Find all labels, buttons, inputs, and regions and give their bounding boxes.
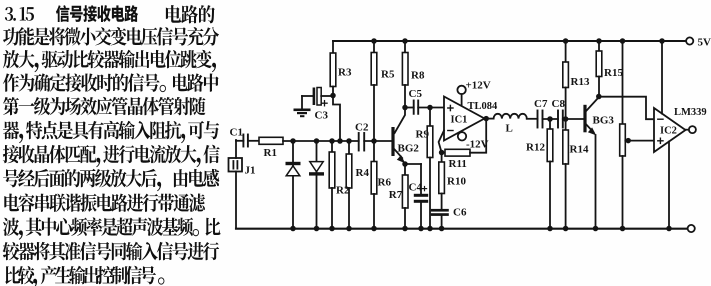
paragraph line 9 [4, 194, 205, 212]
resistor R5 [371, 41, 377, 141]
svg-text:+12V: +12V [466, 80, 491, 92]
resistor R11 (feedback) [442, 119, 487, 157]
svg-text:R11: R11 [449, 158, 467, 170]
capacitor C1 [243, 135, 248, 147]
svg-text:TL084: TL084 [468, 101, 499, 112]
svg-text:C7: C7 [534, 98, 548, 110]
capacitor C6 [431, 209, 449, 229]
svg-text:R10: R10 [447, 176, 466, 188]
svg-text:IC1: IC1 [451, 114, 468, 125]
svg-text:R3: R3 [338, 67, 352, 79]
paragraph line 11 [3, 242, 220, 261]
svg-text:BG2: BG2 [398, 143, 420, 155]
wire J1 to C1 [236, 140, 243, 142]
capacitor C3 [302, 88, 333, 109]
node output ground terminal [688, 225, 695, 232]
svg-text:C8: C8 [552, 98, 566, 110]
svg-text:R4: R4 [356, 167, 370, 179]
capacitor C7 [538, 111, 543, 128]
svg-text:R9: R9 [416, 129, 430, 141]
svg-text:C5: C5 [409, 88, 423, 100]
paragraph line 6 [3, 121, 219, 143]
resistor R14 [563, 119, 569, 229]
ground [294, 109, 311, 118]
wire C1 to R1 [248, 140, 259, 142]
wire IC2 V+ from 5V rail [661, 41, 663, 114]
svg-text:R8: R8 [411, 70, 425, 82]
wire divider tap to IC2 non-inverting input [625, 140, 654, 142]
diode D2 [309, 141, 324, 229]
resistor R1 [259, 137, 283, 144]
resistor R4 [346, 141, 352, 229]
svg-text:R2: R2 [336, 185, 350, 197]
svg-text:BG3: BG3 [593, 115, 615, 127]
wire IC1 output [485, 118, 494, 120]
resistor R10 [439, 153, 445, 209]
svg-text:IC2: IC2 [660, 126, 677, 137]
capacitor C4 [414, 164, 428, 229]
wire IC2 ground pin [668, 142, 670, 229]
wire signal bus (R1 to C2) [283, 140, 359, 142]
paragraph line 7 [3, 145, 220, 167]
wire C8 to BG3 base [563, 118, 584, 120]
resistor R16 (reference divider) [620, 41, 626, 229]
wire R3/C3 node to signal bus [333, 96, 340, 142]
svg-text:R13: R13 [571, 76, 590, 88]
svg-text:C1: C1 [230, 127, 243, 139]
inductor L [494, 114, 527, 119]
paragraph line 5 [3, 97, 206, 115]
svg-text:5V: 5V [698, 37, 711, 49]
heading number 3.15 [5, 7, 34, 21]
node 5V terminal [686, 37, 693, 44]
paragraph line 8 [3, 169, 219, 191]
wire IC1 inverting input [439, 131, 444, 153]
capacitor C5 [405, 101, 444, 114]
svg-text:R5: R5 [381, 69, 395, 81]
capacitor C8 [558, 111, 563, 128]
paragraph line 2 [3, 27, 219, 46]
resistor R9 [427, 108, 433, 229]
resistor R12 [547, 119, 553, 229]
svg-text:R1: R1 [264, 147, 277, 159]
paragraph line 4 [3, 73, 219, 92]
svg-text:L: L [506, 123, 513, 135]
transistor BG3 [583, 97, 598, 228]
resistor R15 [596, 41, 602, 97]
svg-text:J1: J1 [245, 165, 256, 177]
svg-text:C6: C6 [453, 207, 467, 219]
node IC2 output terminal [686, 126, 696, 133]
resistor R3 [330, 41, 336, 96]
node -12V terminal [458, 132, 466, 140]
svg-text:LM339: LM339 [674, 107, 707, 118]
wire C2 to BG2 base [364, 140, 391, 142]
wire BG3 collector to IC2 inverting input [599, 97, 654, 120]
resistor R2 [329, 141, 335, 229]
node +12V terminal [457, 86, 465, 106]
heading title [56, 5, 138, 22]
svg-text:R14: R14 [570, 144, 589, 156]
svg-text:C2: C2 [355, 122, 369, 134]
wire top 5V rail [333, 40, 686, 42]
svg-text:R12: R12 [526, 142, 545, 154]
paragraph line 10 [3, 217, 221, 239]
transistor BG2 [391, 108, 405, 164]
op-amp IC2 [654, 108, 686, 152]
svg-text:R6: R6 [378, 177, 392, 189]
capacitor C2 [359, 133, 365, 151]
resistor R6 [371, 141, 377, 229]
svg-text:R7: R7 [389, 189, 403, 201]
transducer J1 [229, 140, 243, 229]
wire BG2 emitter node [405, 164, 421, 175]
resistor R13 [563, 41, 569, 119]
heading line 1 tail [166, 5, 215, 23]
wire C7 to C8 [543, 118, 559, 120]
paragraph line 12 [5, 266, 164, 286]
svg-text:-12V: -12V [466, 139, 489, 151]
svg-text:C3: C3 [315, 110, 329, 122]
resistor R8 [402, 41, 408, 108]
wire bottom ground rail [236, 228, 688, 230]
op-amp IC1 [444, 97, 485, 141]
wire L to C7 [527, 118, 538, 120]
paragraph line 3 [3, 50, 216, 72]
resistor R7 [402, 175, 408, 229]
svg-text:R15: R15 [604, 67, 623, 79]
diode D1 [286, 141, 301, 229]
svg-text:C4: C4 [409, 182, 423, 194]
